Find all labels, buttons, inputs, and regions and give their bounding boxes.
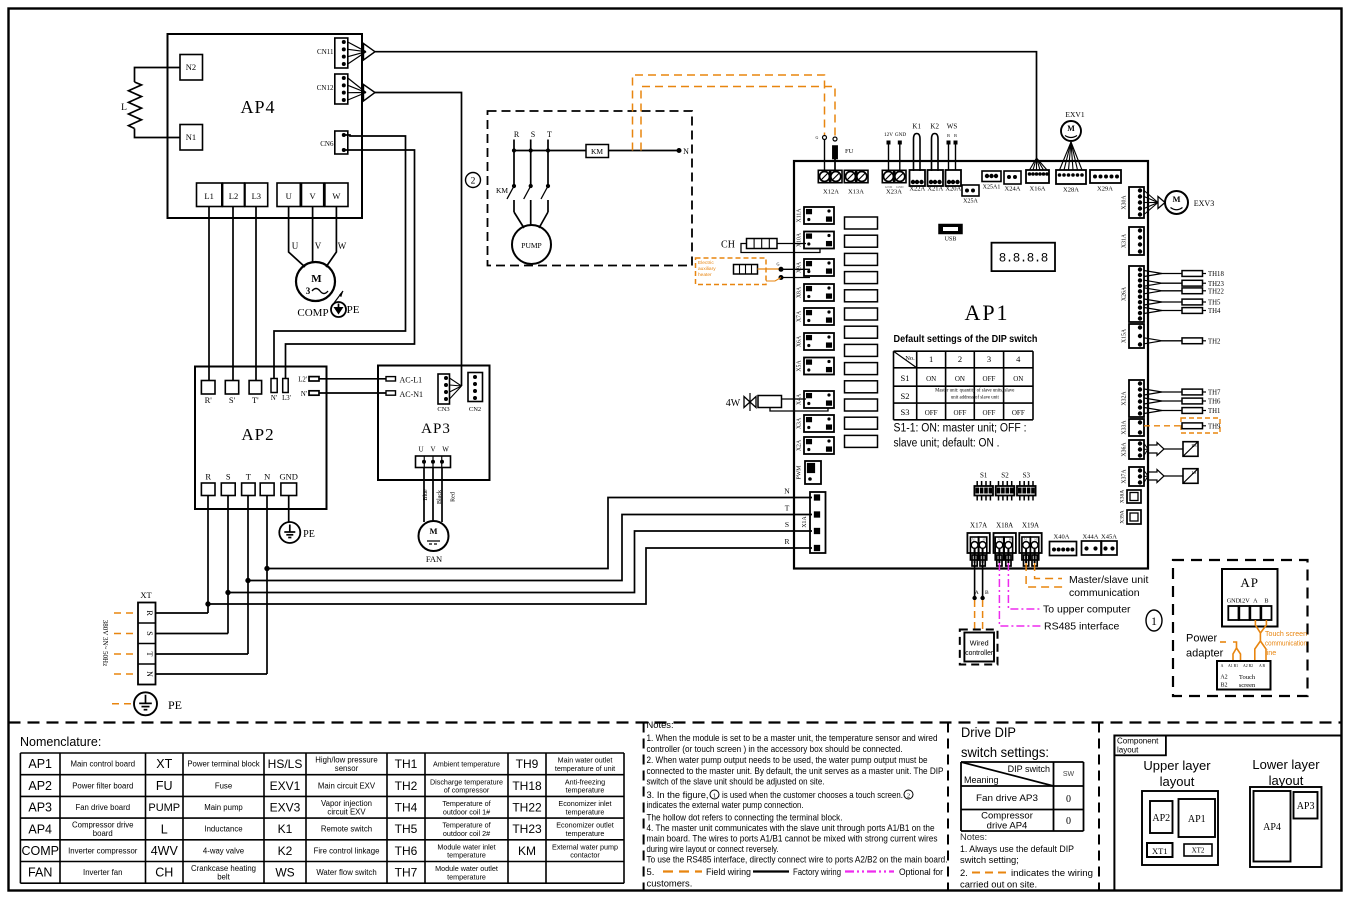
svg-text:4. The master unit communicate: 4. The master unit communicates with the…: [647, 822, 935, 833]
svg-text:The hollow dot refers to conne: The hollow dot refers to connecting the …: [647, 812, 843, 823]
svg-text:1: 1: [713, 793, 716, 800]
svg-text:2: 2: [907, 793, 910, 800]
svg-text:main board. The wires to ports: main board. The wires to ports A1/B1 can…: [647, 833, 938, 844]
svg-text:To use the RS485 interface, di: To use the RS485 interface, directly con…: [647, 854, 948, 865]
svg-text:X8A: X8A: [797, 286, 803, 298]
svg-text:380V 3N~ 50Hz: 380V 3N~ 50Hz: [101, 620, 109, 666]
svg-text:1: 1: [929, 354, 933, 364]
svg-text:X22A: X22A: [909, 186, 925, 193]
svg-text:X25A: X25A: [963, 199, 978, 205]
svg-text:12V: 12V: [884, 132, 893, 138]
svg-text:U: U: [292, 241, 299, 251]
svg-text:No.: No.: [905, 355, 915, 362]
svg-text:Upper layer: Upper layer: [1143, 758, 1211, 773]
svg-text:TH22: TH22: [1208, 288, 1224, 295]
svg-text:N: N: [145, 671, 154, 677]
svg-text:L1: L1: [204, 191, 213, 201]
svg-text:Inverter fan: Inverter fan: [83, 868, 122, 877]
svg-text:R: R: [784, 537, 789, 546]
svg-text:switch of the slave unit shoul: switch of the slave unit should be adjus…: [647, 776, 825, 787]
svg-text:Touch: Touch: [1239, 674, 1256, 681]
svg-text:X23A: X23A: [886, 189, 902, 196]
svg-text:2: 2: [471, 177, 476, 187]
svg-text:OFF: OFF: [954, 409, 967, 417]
svg-text:EXV3: EXV3: [1194, 199, 1214, 208]
svg-text:communication: communication: [1069, 587, 1140, 599]
svg-text:heater: heater: [698, 272, 712, 278]
svg-text:S1: S1: [980, 472, 988, 480]
svg-text:auxiliary: auxiliary: [698, 266, 716, 272]
svg-text:unit address of slave unit: unit address of slave unit: [951, 396, 1000, 401]
svg-text:KM: KM: [591, 147, 603, 156]
svg-text:X25A1: X25A1: [983, 185, 1001, 191]
svg-text:B1: B1: [1034, 538, 1038, 542]
svg-text:S2: S2: [901, 391, 910, 401]
svg-text:of compressor: of compressor: [444, 786, 490, 795]
svg-text:AP3: AP3: [421, 421, 451, 437]
svg-text:board: board: [93, 829, 113, 838]
svg-text:R: R: [145, 610, 154, 616]
svg-text:AP2: AP2: [28, 779, 52, 793]
svg-text:Black: Black: [437, 490, 443, 504]
svg-text:Red: Red: [451, 492, 457, 502]
svg-text:T: T: [547, 130, 552, 139]
svg-text:contactor: contactor: [570, 851, 600, 860]
svg-text:To upper computer: To upper computer: [1043, 604, 1131, 616]
svg-text:TH9: TH9: [516, 757, 539, 771]
svg-text:R: R: [205, 472, 211, 482]
svg-text:drive AP4: drive AP4: [987, 821, 1028, 832]
svg-text:TH7: TH7: [395, 866, 418, 880]
svg-text:Touch screen: Touch screen: [1265, 629, 1307, 638]
svg-text:W: W: [332, 191, 340, 201]
svg-text:TH6: TH6: [395, 844, 418, 858]
svg-text:S: S: [531, 130, 535, 139]
svg-text:X5A: X5A: [797, 360, 803, 372]
svg-text:M: M: [429, 526, 437, 536]
svg-text:temperature: temperature: [566, 807, 605, 816]
svg-text:B: B: [947, 133, 950, 138]
svg-text:customers.: customers.: [647, 878, 693, 889]
svg-text:WS: WS: [275, 866, 294, 880]
svg-text:AP4: AP4: [240, 97, 275, 117]
svg-text:B1: B1: [1009, 538, 1013, 542]
svg-text:HS: HS: [1191, 443, 1196, 448]
svg-text:B: B: [954, 133, 957, 138]
svg-text:CH: CH: [155, 866, 173, 880]
svg-text:TH2: TH2: [1208, 338, 1221, 345]
svg-text:L: L: [121, 103, 127, 113]
svg-text:Meaning: Meaning: [964, 775, 999, 785]
svg-text:B: B: [985, 590, 989, 596]
svg-text:TH18: TH18: [1208, 271, 1224, 278]
svg-text:3: 3: [987, 354, 991, 364]
svg-text:Factory wiring: Factory wiring: [793, 866, 841, 877]
svg-text:Blue: Blue: [423, 489, 429, 501]
svg-text:XT2: XT2: [1192, 847, 1205, 855]
svg-text:TH5: TH5: [1208, 300, 1221, 307]
svg-text:switch setting;: switch setting;: [960, 854, 1019, 865]
svg-text:line: line: [1265, 648, 1276, 657]
svg-text:Inductance: Inductance: [204, 825, 242, 834]
svg-text:TH1: TH1: [1208, 408, 1220, 415]
svg-text:Power filter board: Power filter board: [72, 781, 133, 790]
svg-text:HS/LS: HS/LS: [268, 757, 303, 771]
svg-text:FAN: FAN: [426, 554, 442, 564]
svg-text:PUMP: PUMP: [148, 802, 180, 814]
svg-text:switch settings:: switch settings:: [961, 744, 1049, 760]
svg-text:TH2: TH2: [395, 779, 418, 793]
svg-text:Fan drive board: Fan drive board: [75, 803, 130, 812]
svg-text:AP4: AP4: [28, 822, 52, 836]
svg-text:Master unit: quantity of slave: Master unit: quantity of slave units, sl…: [935, 389, 1014, 394]
svg-text:AP2: AP2: [241, 425, 274, 444]
svg-text:Main circuit EXV: Main circuit EXV: [318, 781, 376, 790]
svg-text:X40A: X40A: [1054, 534, 1070, 541]
svg-text:belt: belt: [217, 872, 230, 881]
svg-text:controller (or touch screen ): controller (or touch screen ) in the acc…: [647, 743, 903, 754]
svg-text:AP1: AP1: [1188, 814, 1206, 825]
svg-text:A: A: [1253, 598, 1258, 605]
svg-text:A1: A1: [971, 538, 976, 542]
svg-text:GND: GND: [280, 472, 298, 482]
svg-text:X18A: X18A: [996, 522, 1013, 530]
svg-text:TH23: TH23: [512, 822, 542, 836]
svg-text:during wire layout or connect: during wire layout or connect reversely.: [647, 843, 779, 854]
svg-text:A: A: [1221, 664, 1224, 668]
svg-text:A1: A1: [997, 538, 1002, 542]
svg-text:AP1: AP1: [964, 300, 1009, 325]
svg-text:T: T: [246, 472, 252, 482]
svg-text:LS: LS: [1192, 470, 1197, 475]
svg-text:W: W: [338, 241, 347, 251]
svg-text:Remote switch: Remote switch: [321, 825, 372, 834]
svg-text:K1: K1: [912, 123, 921, 131]
svg-text:X10A: X10A: [797, 232, 803, 247]
svg-text:5.: 5.: [647, 866, 655, 877]
svg-text:W: W: [442, 446, 449, 454]
svg-text:controller: controller: [965, 648, 994, 657]
svg-text:B2: B2: [1220, 683, 1227, 689]
svg-text:Power: Power: [1186, 633, 1218, 645]
svg-text:TH22: TH22: [512, 800, 542, 814]
svg-text:R': R': [205, 395, 213, 405]
svg-text:4-way valve: 4-way valve: [203, 846, 244, 855]
svg-text:A B: A B: [1259, 664, 1265, 668]
svg-text:Optional for: Optional for: [899, 866, 943, 877]
svg-text:Fuse: Fuse: [215, 781, 232, 790]
svg-text:communication: communication: [1265, 639, 1307, 648]
svg-text:AC-N1: AC-N1: [400, 390, 424, 399]
svg-text:1: 1: [1151, 614, 1157, 628]
svg-text:Ambient temperature: Ambient temperature: [433, 759, 500, 768]
svg-text:Notes:: Notes:: [647, 719, 674, 730]
svg-text:T: T: [785, 504, 790, 513]
svg-text:slave unit; default: ON .: slave unit; default: ON .: [894, 438, 1000, 450]
svg-text:B1: B1: [982, 538, 986, 542]
svg-text:S: S: [226, 472, 231, 482]
svg-text:XT: XT: [140, 590, 152, 600]
svg-text:AP: AP: [1240, 575, 1259, 590]
svg-text:8.8.8.8: 8.8.8.8: [999, 252, 1048, 266]
svg-text:PE: PE: [168, 698, 182, 712]
svg-text:X6A: X6A: [797, 335, 803, 347]
svg-text:temperature: temperature: [447, 872, 486, 881]
svg-text:A1: A1: [1023, 538, 1028, 542]
svg-text:CN6: CN6: [320, 140, 334, 148]
svg-text:GND: GND: [896, 185, 904, 189]
svg-text:N: N: [683, 147, 689, 156]
svg-text:CH: CH: [721, 240, 735, 251]
svg-text:M: M: [311, 273, 322, 285]
svg-text:CN2: CN2: [469, 406, 481, 413]
svg-text:AP3: AP3: [28, 801, 52, 815]
svg-text:SW: SW: [1063, 771, 1075, 778]
svg-text:1. When the module is set to b: 1. When the module is set to be a master…: [647, 732, 938, 743]
svg-text:layout: layout: [1269, 773, 1304, 788]
svg-text:S2: S2: [1001, 472, 1009, 480]
svg-text:PE: PE: [303, 529, 315, 540]
svg-text:N1: N1: [186, 132, 196, 142]
svg-text:A1 B1: A1 B1: [1228, 664, 1238, 668]
svg-text:X28A: X28A: [1063, 187, 1079, 194]
svg-text:AP2: AP2: [1152, 813, 1170, 824]
svg-text:OFF: OFF: [1012, 409, 1025, 417]
svg-text:CN3: CN3: [437, 406, 449, 413]
svg-text:temperature: temperature: [447, 851, 486, 860]
svg-text:Master/slave unit: Master/slave unit: [1069, 574, 1148, 586]
svg-text:A2: A2: [1220, 675, 1227, 681]
svg-text:S3: S3: [901, 407, 910, 417]
svg-text:3: 3: [306, 286, 311, 296]
svg-text:layout: layout: [1117, 746, 1139, 755]
svg-text:FU: FU: [845, 148, 854, 155]
svg-text:CN11: CN11: [317, 48, 334, 56]
svg-text:Electric: Electric: [698, 260, 714, 266]
svg-text:X21A: X21A: [927, 186, 943, 193]
svg-text:L: L: [161, 822, 168, 836]
svg-text:X11A: X11A: [797, 208, 803, 223]
svg-text:M: M: [1067, 124, 1075, 133]
svg-text:Wired: Wired: [970, 639, 989, 648]
svg-text:X9A: X9A: [797, 261, 803, 273]
svg-text:X1A: X1A: [802, 516, 808, 528]
svg-text:EXV1: EXV1: [1065, 110, 1084, 119]
svg-text:X12A: X12A: [823, 189, 839, 196]
svg-text:2.: 2.: [960, 867, 968, 878]
svg-text:AC-L1: AC-L1: [400, 376, 423, 385]
svg-text:X36A: X36A: [1122, 442, 1128, 457]
svg-text:X38A: X38A: [1120, 490, 1126, 503]
svg-text:Nomenclature:: Nomenclature:: [20, 735, 101, 749]
svg-text:CN12: CN12: [317, 84, 334, 92]
svg-text:T: T: [145, 652, 154, 657]
svg-text:V: V: [430, 446, 435, 454]
svg-text:outdoor coil 2#: outdoor coil 2#: [443, 829, 490, 838]
svg-text:0: 0: [1066, 794, 1071, 805]
svg-text:FAN: FAN: [28, 866, 52, 880]
svg-text:X7A: X7A: [797, 310, 803, 322]
svg-text:X4A: X4A: [797, 393, 803, 405]
svg-text:TH5: TH5: [395, 822, 418, 836]
svg-text:X2A: X2A: [797, 439, 803, 451]
svg-text:RS485 interface: RS485 interface: [1044, 621, 1119, 633]
svg-text:Lower layer: Lower layer: [1252, 757, 1320, 772]
svg-text:WS: WS: [947, 123, 958, 131]
svg-text:AP3: AP3: [1297, 801, 1315, 812]
svg-text:OFF: OFF: [925, 409, 938, 417]
svg-text:OFF: OFF: [983, 409, 996, 417]
svg-text:R: R: [514, 130, 520, 139]
svg-text:Component: Component: [1117, 737, 1159, 746]
svg-text:Default settings of the DIP sw: Default settings of the DIP switch: [894, 334, 1038, 345]
svg-text:connected to the master unit.: connected to the master unit. By default…: [647, 765, 944, 776]
svg-text:S3: S3: [1023, 472, 1031, 480]
svg-text:Main pump: Main pump: [204, 803, 243, 812]
svg-text:TH7: TH7: [1208, 390, 1221, 397]
svg-text:L2: L2: [229, 191, 238, 201]
svg-text:B: B: [1264, 598, 1268, 605]
svg-text:S1: S1: [901, 373, 910, 383]
svg-text:X33A: X33A: [1122, 420, 1128, 435]
svg-text:EXV3: EXV3: [270, 800, 301, 814]
svg-text:FU: FU: [156, 779, 173, 793]
svg-text:N2: N2: [186, 62, 196, 72]
svg-text:K2: K2: [278, 844, 293, 858]
svg-text:Fire control linkage: Fire control linkage: [314, 846, 380, 855]
svg-text:ON: ON: [1013, 375, 1023, 383]
svg-text:carried out on site.: carried out on site.: [960, 879, 1037, 890]
svg-text:S1-1: ON: master unit; OFF :: S1-1: ON: master unit; OFF :: [894, 423, 1027, 435]
svg-text:TH9: TH9: [1208, 423, 1221, 430]
svg-text:Water flow switch: Water flow switch: [316, 868, 376, 877]
svg-text:X3A: X3A: [797, 417, 803, 429]
svg-text:L2': L2': [298, 377, 307, 384]
svg-text:ON: ON: [955, 375, 965, 383]
svg-text:GND: GND: [885, 185, 893, 189]
svg-text:T': T': [252, 395, 259, 405]
svg-text:X45A: X45A: [1101, 534, 1117, 541]
svg-text:temperature: temperature: [566, 829, 605, 838]
svg-text:3. In the figure,: 3. In the figure,: [647, 789, 709, 800]
svg-text:OFF: OFF: [983, 375, 996, 383]
svg-text:KM: KM: [518, 844, 536, 858]
svg-text:G: G: [776, 262, 779, 267]
svg-text:4: 4: [1016, 354, 1021, 364]
svg-text:2: 2: [958, 354, 962, 364]
svg-text:TH6: TH6: [1208, 399, 1221, 406]
svg-text:Power terminal block: Power terminal block: [187, 760, 259, 769]
svg-text:indicates the wiring: indicates the wiring: [1011, 867, 1093, 878]
svg-text:Main control board: Main control board: [70, 760, 135, 769]
svg-text:sensor: sensor: [335, 764, 359, 773]
svg-text:L3: L3: [252, 191, 261, 201]
svg-text:U: U: [286, 191, 292, 201]
svg-text:DIP switch: DIP switch: [1008, 764, 1050, 774]
svg-text:N: N: [264, 472, 270, 482]
svg-text:V: V: [315, 241, 322, 251]
svg-text:indicates the external water p: indicates the external water pump connec…: [647, 799, 804, 810]
svg-text:XT1: XT1: [1152, 846, 1168, 856]
svg-text:X19A: X19A: [1022, 522, 1039, 530]
svg-text:N': N': [271, 395, 277, 402]
svg-text:TH1: TH1: [395, 757, 418, 771]
svg-text:COMP: COMP: [297, 307, 328, 319]
svg-text:TH23: TH23: [1208, 281, 1224, 288]
svg-text:N: N: [784, 487, 790, 496]
svg-text:X17A: X17A: [970, 522, 987, 530]
svg-text:0: 0: [1066, 816, 1071, 827]
svg-text:PWM: PWM: [797, 466, 803, 480]
svg-text:2. When water pump output need: 2. When water pump output needs to be us…: [647, 754, 928, 765]
svg-text:Fan drive AP3: Fan drive AP3: [976, 793, 1038, 804]
svg-text:4WV: 4WV: [151, 844, 179, 858]
svg-text:X26A: X26A: [1122, 286, 1128, 301]
svg-text:TH18: TH18: [512, 779, 542, 793]
svg-text:1. Always use the default DIP: 1. Always use the default DIP: [960, 843, 1074, 854]
svg-text:ON: ON: [926, 375, 936, 383]
svg-text:adapter: adapter: [1186, 648, 1224, 660]
svg-text:KM: KM: [496, 186, 508, 195]
svg-text:screen: screen: [1239, 682, 1256, 689]
svg-text:X20A: X20A: [945, 186, 961, 193]
svg-text:Inverter compressor: Inverter compressor: [68, 846, 138, 855]
svg-text:L3': L3': [282, 395, 291, 402]
svg-text:layout: layout: [1160, 774, 1195, 789]
svg-text:XT: XT: [156, 757, 172, 771]
svg-text:A2 B2: A2 B2: [1243, 664, 1253, 668]
svg-text:X15A: X15A: [1122, 328, 1128, 343]
svg-text:X16A: X16A: [1030, 186, 1046, 193]
svg-text:USB: USB: [945, 237, 957, 243]
svg-text:X30A: X30A: [1122, 195, 1128, 210]
svg-text:G: G: [816, 135, 819, 140]
svg-text:GND: GND: [895, 132, 906, 138]
svg-text:is used when the customer choo: is used when the customer chooses a touc…: [722, 789, 903, 800]
svg-text:V: V: [310, 191, 317, 201]
svg-text:X29A: X29A: [1097, 186, 1113, 193]
svg-text:PUMP: PUMP: [521, 241, 541, 250]
svg-text:outdoor coil 1#: outdoor coil 1#: [443, 807, 490, 816]
svg-text:temperature of unit: temperature of unit: [555, 764, 615, 773]
svg-text:X32A: X32A: [1122, 391, 1128, 406]
svg-text:S: S: [785, 520, 789, 529]
svg-text:TH4: TH4: [395, 800, 418, 814]
svg-text:AP1: AP1: [28, 757, 52, 771]
svg-text:K1: K1: [278, 822, 293, 836]
svg-text:S': S': [229, 395, 236, 405]
svg-text:circuit EXV: circuit EXV: [327, 807, 366, 816]
svg-text:X37A: X37A: [1122, 469, 1128, 484]
svg-text:K2: K2: [930, 123, 939, 131]
svg-text:4W: 4W: [726, 398, 741, 409]
svg-text:Drive DIP: Drive DIP: [961, 724, 1016, 740]
svg-text:12V: 12V: [1239, 598, 1250, 605]
svg-text:Field wiring: Field wiring: [706, 866, 751, 877]
svg-text:PE: PE: [347, 304, 360, 316]
svg-text:M: M: [1172, 194, 1180, 204]
svg-text:EXV1: EXV1: [270, 779, 301, 793]
svg-text:X13A: X13A: [848, 189, 864, 196]
svg-text:AP4: AP4: [1263, 822, 1281, 833]
svg-text:X39A: X39A: [1120, 510, 1126, 523]
svg-text:X44A: X44A: [1083, 534, 1099, 541]
svg-text:N': N': [301, 391, 307, 398]
svg-text:COMP: COMP: [21, 844, 59, 858]
svg-text:Notes:: Notes:: [960, 831, 987, 842]
svg-text:S: S: [145, 631, 154, 635]
svg-text:TH4: TH4: [1208, 308, 1221, 315]
